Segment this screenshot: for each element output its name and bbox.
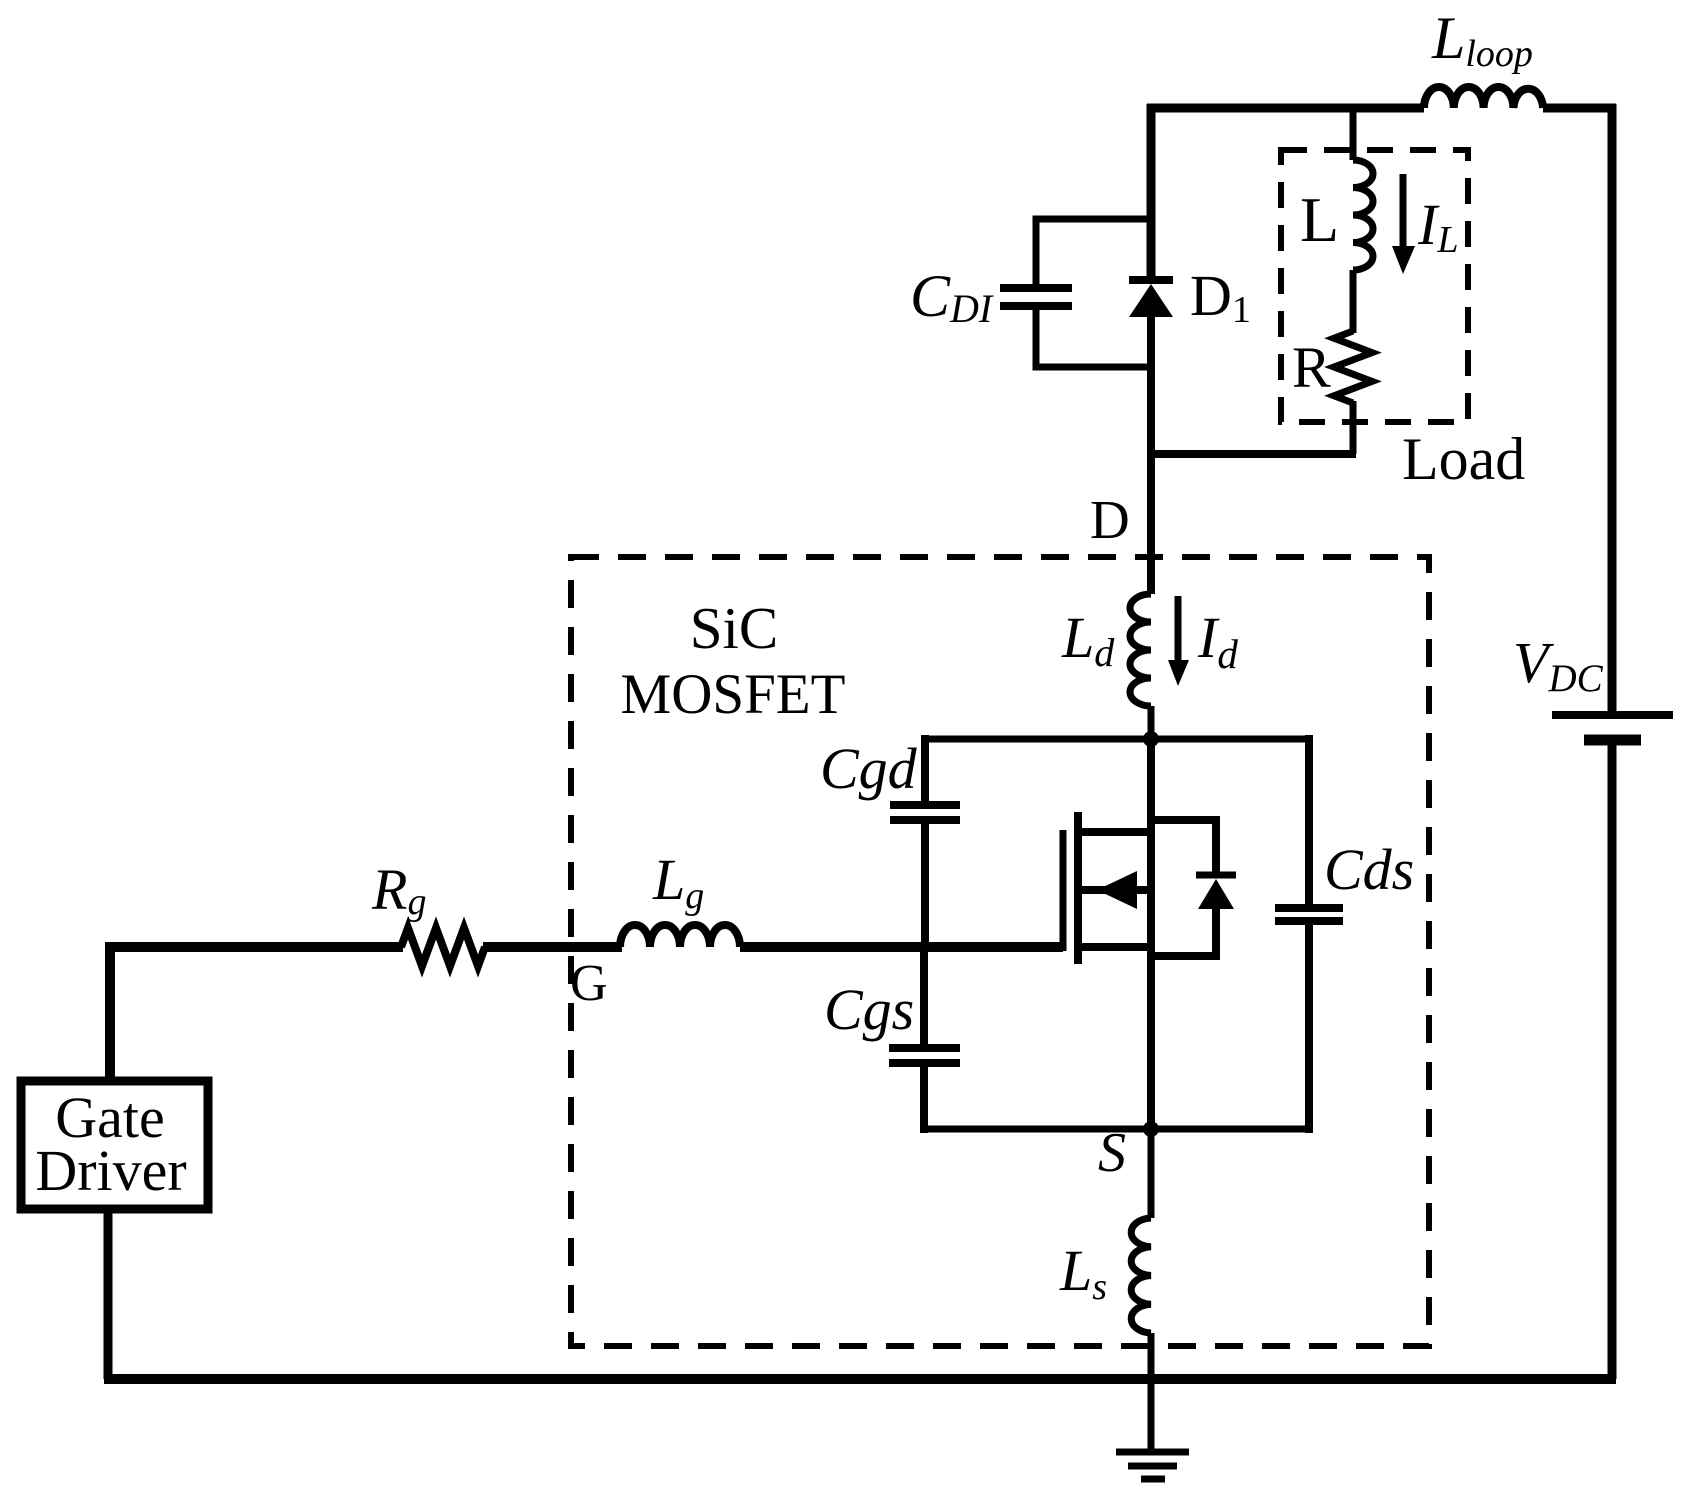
wire gate driver output to Rg <box>110 947 403 1081</box>
svg-text:R: R <box>1292 335 1331 400</box>
wire top bus right segment <box>1543 104 1616 113</box>
MOSFET Q1 gate electrode <box>1060 830 1067 951</box>
capacitor Cgs lower lead <box>920 1067 928 1133</box>
wire cell bottom <box>920 1126 1313 1133</box>
SiC MOSFET dashed box <box>571 557 1429 1346</box>
inductor Ld <box>1130 594 1151 706</box>
inductor Lg <box>620 925 740 947</box>
wire top bus left segment <box>1147 104 1424 113</box>
svg-text:Cgs: Cgs <box>824 977 914 1042</box>
svg-text:S: S <box>1098 1122 1126 1184</box>
svg-text:Load: Load <box>1402 426 1525 492</box>
resistor R load <box>1334 331 1372 403</box>
wire Ld to cell top <box>1148 706 1155 739</box>
svg-text:VDC: VDC <box>1513 630 1604 700</box>
inductor Ls <box>1131 1218 1151 1333</box>
wire Ls to ground <box>1148 1333 1155 1452</box>
ground <box>1116 1452 1189 1479</box>
svg-text:CDI: CDI <box>910 263 994 331</box>
body diode <box>1196 875 1236 909</box>
wire bottom bus <box>104 1374 1616 1384</box>
capacitor Cgs <box>889 1048 960 1063</box>
svg-text:G: G <box>570 955 608 1012</box>
Load dashed box <box>1281 150 1468 422</box>
capacitor Cds upper lead <box>1305 735 1313 904</box>
svg-text:SiC: SiC <box>690 595 779 661</box>
battery VDC <box>1552 715 1673 740</box>
svg-text:Ls: Ls <box>1059 1238 1107 1308</box>
body diode top lead <box>1147 820 1216 872</box>
capacitor Cds <box>1275 908 1343 921</box>
svg-text:IL: IL <box>1417 192 1458 261</box>
arrow IL <box>1392 174 1415 274</box>
capacitor CD1 <box>1000 288 1072 306</box>
svg-text:Rg: Rg <box>371 857 426 923</box>
wire load bottom connection <box>1147 450 1356 458</box>
resistor Rg <box>401 928 485 966</box>
svg-text:L: L <box>1300 184 1339 255</box>
svg-text:Ld: Ld <box>1061 605 1115 675</box>
junction node source <box>1143 1121 1159 1137</box>
MOSFET Q1 source stub <box>1078 943 1151 951</box>
capacitor Cgd upper lead <box>921 735 929 801</box>
wire right bus upper <box>1608 104 1617 716</box>
body diode bottom lead <box>1147 905 1216 956</box>
svg-text:Driver: Driver <box>35 1138 186 1203</box>
inductor Lloop <box>1424 87 1543 108</box>
capacitor CD1 top lead <box>1036 219 1151 288</box>
wire load branch top <box>1350 104 1357 160</box>
svg-text:MOSFET: MOSFET <box>621 663 846 726</box>
capacitor Cds lower lead <box>1305 925 1313 1133</box>
capacitor Cgd <box>890 805 960 820</box>
wire S to Ls <box>1148 1129 1155 1218</box>
inductor L load <box>1353 160 1373 270</box>
svg-text:D: D <box>1090 489 1130 550</box>
svg-text:Id: Id <box>1197 605 1238 677</box>
svg-text:Lloop: Lloop <box>1431 5 1533 75</box>
capacitor Cgd lower lead <box>921 824 929 947</box>
svg-text:Cgd: Cgd <box>820 736 918 801</box>
wire MOSFET central vertical <box>1147 739 1155 1129</box>
wire load branch bottom <box>1350 401 1357 454</box>
junction node drain <box>1143 731 1159 747</box>
wire main column (D1 anode to Ld) <box>1147 315 1155 594</box>
svg-text:Cds: Cds <box>1324 837 1414 902</box>
wire main column top (top bus to D1) <box>1147 104 1156 280</box>
wire right bus lower <box>1608 741 1617 1379</box>
wire load branch mid <box>1350 270 1357 333</box>
MOSFET Q1 channel bar <box>1074 812 1082 964</box>
capacitor Cgs upper lead <box>920 947 928 1045</box>
capacitor CD1 bottom lead <box>1036 306 1151 367</box>
diode D1 <box>1129 280 1173 317</box>
arrow Id <box>1168 596 1189 686</box>
svg-text:D1: D1 <box>1190 263 1251 331</box>
svg-text:Lg: Lg <box>652 847 704 917</box>
wire cell top <box>921 736 1309 743</box>
Gate Driver box <box>21 1081 208 1209</box>
wire Rg to Lg <box>483 942 622 952</box>
MOSFET Q1 source arrow stub <box>1078 886 1151 894</box>
wire gate driver bottom to bottom bus <box>104 1209 113 1379</box>
MOSFET Q1 drain stub <box>1078 828 1151 836</box>
MOSFET Q1 arrow <box>1097 871 1137 909</box>
wire Lg to MOSFET gate <box>740 942 1063 952</box>
